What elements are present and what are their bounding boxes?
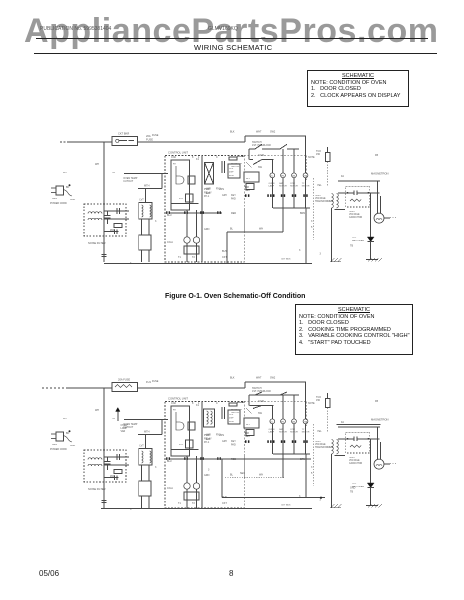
svg-text:GND: GND [70, 445, 75, 447]
svg-text:MOTOR: MOTOR [279, 432, 287, 434]
svg-text:MTH: MTH [144, 431, 150, 434]
wire [148, 496, 150, 508]
label [311, 220, 313, 223]
label [204, 188, 210, 191]
relay box RY-A [139, 481, 151, 496]
ground [366, 258, 382, 262]
svg-text:OVEN: OVEN [269, 429, 275, 431]
junction J2 [237, 401, 244, 403]
svg-text:YEL: YEL [317, 430, 322, 433]
wire [313, 178, 315, 240]
label [171, 156, 176, 159]
label [299, 249, 301, 252]
wire [335, 455, 345, 457]
svg-text:VOLTAGE: VOLTAGE [315, 443, 326, 446]
wire [313, 424, 315, 486]
wire [161, 419, 163, 435]
svg-text:HIGH: HIGH [315, 441, 321, 443]
label [258, 412, 263, 415]
wire [171, 202, 198, 204]
svg-text:FB: FB [375, 400, 378, 403]
high voltage capacitor C4 [349, 211, 363, 219]
wire [171, 448, 198, 450]
wire [282, 208, 284, 232]
stirrer motor SM [290, 395, 298, 454]
svg-text:5: 5 [311, 472, 313, 475]
svg-text:GRY: GRY [222, 440, 228, 443]
relay RY2 [188, 176, 195, 184]
fan motor FM [279, 149, 287, 208]
svg-text:CKT BUS: CKT BUS [281, 505, 291, 507]
label [245, 186, 249, 189]
header rule bottom [34, 53, 437, 54]
high voltage line [338, 191, 379, 195]
label [231, 198, 236, 201]
wire [337, 424, 381, 426]
label [231, 444, 236, 447]
label [167, 214, 172, 217]
power cord plug [50, 186, 75, 205]
label [219, 188, 224, 191]
capacitor C5 [222, 161, 225, 173]
wire [244, 155, 306, 157]
label [256, 131, 262, 134]
label [198, 156, 200, 159]
label [317, 430, 322, 433]
wire [145, 435, 147, 449]
wire [248, 149, 250, 160]
label [152, 380, 159, 383]
label [240, 472, 245, 475]
svg-text:MONITOR: MONITOR [231, 409, 242, 411]
wire [148, 219, 150, 235]
label [270, 377, 276, 380]
wire [327, 393, 329, 399]
svg-text:LVT: LVT [140, 445, 145, 448]
label [216, 434, 221, 437]
label [167, 241, 173, 244]
capacitor C1 [105, 211, 111, 224]
label [311, 466, 313, 469]
label [231, 458, 236, 461]
junction J1 [320, 497, 322, 499]
stirrer motor SM [290, 149, 298, 208]
svg-text:POWER CORD: POWER CORD [50, 448, 67, 451]
interlock switch SW1 [249, 387, 299, 395]
label [152, 134, 159, 137]
svg-text:RY: RY [173, 410, 177, 412]
relay RY1 [173, 410, 184, 431]
label [375, 154, 378, 157]
wire [305, 426, 307, 498]
label [206, 188, 211, 191]
label [231, 440, 236, 443]
relay coil box [184, 246, 199, 254]
label [206, 438, 211, 441]
wire [196, 489, 198, 508]
diode D1 [352, 439, 374, 506]
wire [331, 454, 333, 508]
label [204, 474, 210, 477]
svg-text:SEC: SEC [245, 435, 250, 438]
oven thermal cutout TCO1 [112, 172, 168, 183]
magnetron tube V1 [371, 418, 397, 470]
interlock switch SW1 [249, 141, 299, 149]
label [300, 458, 305, 461]
label [259, 474, 263, 477]
wire [103, 388, 105, 508]
pcb pins [166, 457, 221, 460]
label [350, 487, 356, 490]
thermal cutout TCO2 [316, 150, 330, 186]
label [206, 192, 211, 195]
label [281, 505, 291, 507]
label [311, 472, 313, 475]
label [222, 496, 227, 499]
label [216, 188, 221, 191]
label [216, 156, 218, 159]
label [222, 250, 227, 253]
label [192, 402, 194, 405]
svg-text:CKT: CKT [222, 502, 227, 505]
label [230, 474, 234, 477]
label [167, 487, 173, 490]
relay box RY-A [139, 235, 151, 250]
label [245, 435, 250, 438]
wire [273, 207, 310, 209]
wire [67, 387, 112, 389]
svg-text:CLK: CLK [229, 414, 234, 416]
label [66, 186, 70, 189]
noise filter enclosure [84, 204, 126, 236]
label [204, 192, 212, 195]
wire [138, 185, 162, 189]
label [317, 184, 322, 187]
circuit breaker CB1 [112, 132, 153, 146]
label [155, 466, 157, 469]
oven thermal cutout TCO1 [112, 418, 168, 429]
schematic note box 2 [295, 304, 413, 355]
wire [148, 465, 150, 481]
wire [305, 156, 307, 181]
wire [338, 180, 380, 182]
label [171, 402, 176, 405]
junction J2 [237, 155, 244, 157]
power relay RY4 [205, 163, 214, 185]
label [204, 441, 210, 444]
svg-text:NOTE: NOTE [308, 402, 315, 405]
fuse F1 [112, 378, 151, 392]
svg-text:SW2: SW2 [270, 377, 276, 380]
label [258, 400, 264, 403]
pin marks [245, 194, 269, 197]
capacitor C2 [117, 208, 120, 214]
pcb pins [166, 211, 221, 214]
svg-text:VAR: VAR [121, 430, 126, 433]
power cord plug [50, 432, 75, 451]
svg-text:CN2: CN2 [171, 402, 176, 405]
wire [245, 135, 306, 137]
noise filter choke L1 [88, 458, 102, 466]
label [222, 502, 227, 505]
wire [138, 141, 246, 143]
svg-text:GRN: GRN [52, 444, 57, 446]
wire [104, 210, 129, 212]
label [308, 156, 315, 159]
wire [60, 141, 68, 143]
label [320, 253, 322, 256]
svg-text:3: 3 [320, 499, 322, 502]
label [308, 402, 315, 405]
capacitor C3 [102, 255, 107, 257]
noise filter choke L1 [88, 212, 102, 220]
svg-text:MAGNETRON: MAGNETRON [371, 418, 389, 422]
pcb block [171, 160, 190, 210]
wire [138, 431, 162, 435]
label [204, 434, 210, 437]
label [95, 409, 99, 412]
header rule top [36, 38, 428, 39]
capacitor C3 [102, 501, 107, 503]
svg-text:RY2: RY2 [179, 444, 184, 446]
buzzer BZ [246, 184, 254, 190]
wire [104, 464, 129, 466]
label [204, 228, 210, 231]
wire [104, 231, 119, 233]
node L [63, 172, 67, 174]
high voltage transformer T2 [315, 432, 370, 454]
oven lamp OL [269, 406, 275, 455]
high voltage capacitor C4 [349, 457, 363, 465]
wire [138, 387, 246, 389]
label [230, 228, 234, 231]
wire [273, 453, 310, 455]
page title [194, 43, 272, 52]
svg-text:FUSE: FUSE [152, 380, 159, 383]
wire [103, 142, 105, 262]
wire [161, 173, 163, 189]
wire [282, 454, 284, 478]
bus wire [104, 263, 312, 265]
label [375, 400, 378, 403]
magnetron tube V1 [371, 172, 397, 224]
node L [63, 418, 67, 420]
turntable motor TTM [302, 382, 310, 454]
label [230, 377, 235, 380]
transformer T3 [204, 409, 215, 427]
svg-text:GND: GND [350, 487, 356, 490]
bus wire [101, 508, 312, 510]
wire [338, 426, 380, 428]
svg-text:1: 1 [198, 402, 200, 405]
svg-text:DSP: DSP [229, 418, 234, 420]
label [178, 256, 181, 259]
svg-text:BRN: BRN [300, 458, 305, 461]
wire [244, 136, 246, 142]
wire [104, 456, 129, 458]
svg-text:FA: FA [341, 421, 344, 424]
label [178, 502, 181, 505]
svg-text:BK: BK [66, 432, 70, 435]
label [222, 194, 228, 197]
wire [225, 477, 284, 479]
transformer T1 [139, 445, 152, 466]
control unit enclosure [165, 151, 244, 263]
svg-text:CONTROL UNIT: CONTROL UNIT [168, 397, 188, 401]
svg-text:SWITCH: SWITCH [252, 387, 262, 390]
svg-text:1ST. INTERLOCK: 1ST. INTERLOCK [252, 390, 272, 393]
monitor switch SW3 [231, 408, 252, 478]
svg-text:RY-1: RY-1 [204, 441, 210, 444]
relay contacts RY5 [244, 418, 259, 428]
label [245, 189, 250, 192]
label [350, 245, 353, 248]
svg-text:SM: SM [292, 421, 295, 423]
oven lamp OL [269, 160, 275, 209]
figure caption [165, 293, 305, 300]
wire [196, 210, 198, 237]
diode D1 [352, 193, 374, 260]
label [350, 491, 353, 494]
svg-text:WH: WH [95, 409, 99, 412]
wire [148, 250, 150, 262]
label [130, 508, 132, 511]
svg-text:SWITCH: SWITCH [231, 412, 240, 414]
control unit enclosure [165, 397, 244, 509]
label [155, 220, 157, 223]
label [270, 131, 276, 134]
wire [141, 465, 143, 481]
relay RY3 [179, 194, 193, 202]
svg-text:H3: H3 [112, 418, 116, 420]
label [222, 440, 228, 443]
svg-text:3: 3 [208, 469, 210, 472]
wire [104, 477, 119, 479]
label [196, 404, 200, 407]
label [204, 195, 210, 198]
bus wire [222, 497, 325, 499]
display module DSP [228, 410, 240, 424]
resistor R1 [110, 224, 122, 233]
svg-text:BL: BL [230, 474, 234, 477]
model number [208, 26, 238, 32]
svg-text:SEC: SEC [240, 472, 245, 475]
label [130, 262, 132, 265]
svg-text:PAD: PAD [231, 444, 236, 447]
label [281, 259, 291, 261]
interlock switch SW2 [249, 159, 273, 164]
label [192, 502, 195, 505]
svg-text:CN-A: CN-A [167, 487, 173, 490]
buzzer BZ [246, 430, 254, 436]
ground [366, 504, 382, 508]
wire [201, 156, 203, 263]
svg-text:VOLTAGE: VOLTAGE [349, 459, 360, 462]
label [208, 469, 210, 472]
label [230, 131, 235, 134]
wire [104, 218, 129, 220]
svg-text:RED: RED [231, 458, 236, 461]
svg-text:BLK: BLK [230, 377, 235, 380]
label [222, 256, 227, 259]
label [167, 460, 172, 463]
turntable motor TTM [302, 136, 310, 208]
label [196, 158, 200, 161]
thermal cutout TCO2 [316, 396, 330, 432]
svg-text:FM: FM [281, 421, 284, 423]
label [192, 256, 195, 259]
label [95, 163, 99, 166]
wire [141, 250, 143, 262]
svg-text:20A FUSE: 20A FUSE [118, 378, 130, 382]
label [258, 154, 264, 157]
svg-text:T.T.: T.T. [302, 429, 306, 431]
wire [331, 208, 333, 262]
svg-text:SW: SW [258, 412, 263, 415]
publication number [40, 26, 111, 32]
svg-text:C: C [216, 402, 218, 405]
wire [141, 219, 143, 235]
relay RY1 [173, 164, 184, 185]
svg-text:MOTOR: MOTOR [290, 432, 298, 434]
svg-text:BUS: BUS [222, 496, 227, 499]
wire [221, 459, 223, 498]
svg-text:3: 3 [311, 466, 313, 469]
svg-text:BLU: BLU [167, 460, 172, 463]
wire [327, 147, 329, 153]
svg-text:GRN: GRN [204, 474, 210, 477]
wire [196, 456, 198, 483]
svg-text:WHT: WHT [256, 377, 262, 380]
svg-text:RY2: RY2 [216, 434, 221, 437]
svg-text:CN-B: CN-B [258, 400, 264, 403]
wire [186, 456, 188, 483]
svg-text:NOISE FILTER: NOISE FILTER [88, 487, 106, 491]
svg-text:H.V.: H.V. [352, 483, 357, 485]
turntable relay circles [184, 237, 200, 243]
svg-text:8: 8 [192, 402, 194, 405]
footer page number [229, 569, 233, 578]
relay RY3 [179, 440, 193, 448]
wire [186, 489, 188, 508]
svg-text:TRANSFORMER: TRANSFORMER [315, 446, 333, 449]
wire [67, 141, 112, 143]
svg-text:T2: T2 [192, 502, 195, 505]
label [198, 402, 200, 405]
ground [330, 258, 342, 262]
resistor R1 [110, 470, 122, 479]
svg-text:RLY: RLY [246, 424, 251, 426]
fan motor FM [279, 395, 287, 454]
label [256, 377, 262, 380]
wire [170, 458, 311, 460]
membrane connector CN1 [229, 157, 237, 160]
high voltage line [338, 437, 379, 441]
svg-text:LAMP: LAMP [269, 431, 275, 434]
svg-text:CAPACITOR: CAPACITOR [349, 462, 363, 465]
wire [42, 387, 67, 389]
membrane connector CN1 [229, 403, 237, 406]
label [206, 434, 211, 437]
svg-text:150: 150 [316, 399, 321, 402]
wire [305, 252, 307, 264]
display module DSP [228, 164, 240, 178]
capacitor C2 [117, 454, 120, 460]
label [299, 495, 301, 498]
wire [196, 243, 198, 262]
svg-text:WH: WH [259, 474, 263, 477]
svg-text:3: 3 [155, 466, 157, 469]
